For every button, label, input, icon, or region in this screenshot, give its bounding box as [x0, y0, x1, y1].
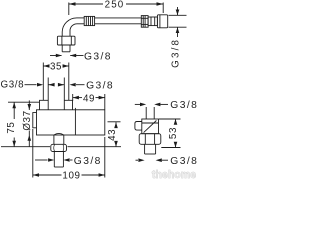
side view body: [142, 119, 159, 134]
hose tube lines: [77, 17, 85, 19]
side view G3/8 top callout: [135, 103, 140, 105]
43 dim line and arrows (right of front view): [115, 122, 117, 127]
svg-text:G3/8: G3/8: [170, 100, 198, 111]
35 dim line and arrows: [43, 65, 49, 67]
G3/8 outlet callout arrows (front view bottom): [35, 159, 48, 161]
49 dim extension lines: [72, 94, 74, 101]
svg-text:G3/8: G3/8: [86, 80, 114, 91]
wall stub left: [33, 113, 37, 128]
svg-text:35: 35: [50, 61, 62, 72]
diameter 37 dim line and arrows: [28, 100, 30, 110]
svg-text:G3/8: G3/8: [1, 79, 25, 90]
G3/8 riser callout right arrow: [76, 84, 85, 86]
side view outlet tube: [144, 144, 146, 154]
49 dim line and arrows: [73, 97, 82, 99]
G3/8 callout (elbow stub) left arrow: [50, 55, 62, 57]
svg-text:Ø37: Ø37: [22, 110, 33, 130]
G3/8 riser double arrow: [48, 84, 54, 86]
dimension 250 extension line left: [68, 3, 70, 16]
outlet tube: [53, 152, 55, 168]
svg-text:G3/8: G3/8: [170, 156, 198, 167]
109 dim line and arrows: [33, 174, 62, 176]
svg-text:250: 250: [105, 0, 125, 11]
hose ferrule right: [141, 16, 148, 28]
svg-text:75: 75: [6, 122, 17, 134]
109 dim extension lines: [32, 129, 34, 178]
G3/8 nut dim arrow top: [177, 7, 179, 15]
bottom construction line y=146.7: [1, 146, 50, 148]
body rectangle: [37, 110, 105, 135]
front view riser pipe: [47, 78, 49, 110]
handle divider: [74, 108, 76, 135]
G3/8 stub below elbow nut: [61, 45, 63, 52]
svg-text:thehome: thehome: [152, 169, 196, 181]
svg-text:G3/8: G3/8: [84, 51, 112, 62]
53 dim extension lines: [159, 118, 181, 120]
side view outlet stub (left, rounded): [135, 122, 142, 131]
svg-text:49: 49: [83, 93, 95, 104]
outlet nut: [51, 144, 67, 151]
hose end nut G3/8: [157, 15, 167, 28]
G3/8 nut dim extension lines: [169, 14, 187, 16]
G3/8 callout (elbow stub) right arrow: [70, 55, 83, 57]
75 dim line and arrows (rotated text): [13, 102, 15, 119]
side view hex nut: [139, 134, 161, 145]
dimension 250 line: [69, 3, 103, 5]
hose nut (elbow side): [57, 36, 75, 45]
svg-text:109: 109: [62, 171, 80, 182]
svg-text:G3/8: G3/8: [74, 156, 102, 167]
dimension 250 extension line right: [162, 3, 164, 14]
G3/8 riser callout left arrow: [25, 84, 37, 86]
svg-text:43: 43: [107, 129, 118, 141]
elbow outer bend: [62, 18, 76, 36]
side view diagonal passage: [144, 121, 157, 133]
dimension 250 arrow right: [157, 2, 164, 6]
75 dim top extension line: [8, 101, 39, 103]
35 dim extension lines: [42, 63, 44, 101]
svg-text:G3/8: G3/8: [170, 38, 181, 68]
dimension 250 arrow left: [69, 2, 76, 6]
hose ferrule left: [84, 16, 94, 25]
side view top pipe: [145, 107, 147, 119]
svg-text:53: 53: [168, 127, 179, 139]
collar top segments: [40, 100, 49, 110]
side view G3/8 bottom callout: [136, 159, 139, 161]
side view collar boundary line: [142, 122, 159, 124]
outlet stub below body: [53, 135, 55, 144]
elbow inner bend: [70, 24, 77, 36]
hose neck: [148, 17, 157, 26]
G3/8 nut dim arrow bottom: [177, 27, 179, 37]
43 dim top extension line: [108, 121, 121, 123]
53 dim line and arrows: [175, 119, 177, 123]
